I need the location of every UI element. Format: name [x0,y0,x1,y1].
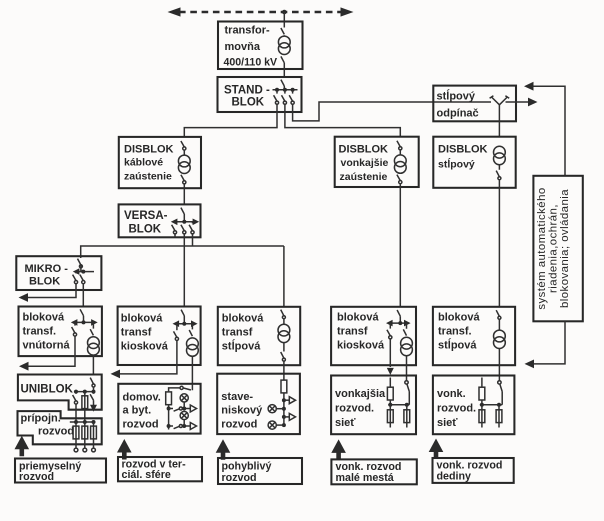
svg-text:rozvod.: rozvod. [335,403,374,415]
transformer in vnutorna [88,337,100,355]
switch in DISBLOK kablove (upper) [181,141,186,150]
fuse pripojn 1 [75,422,77,448]
transformer in DISBLOK kablove [178,155,190,173]
svg-text:zaústenie: zaústenie [340,171,388,183]
wire: to transformer [183,150,185,155]
box: staveniskovy rozvod [217,374,300,434]
node: domov tap 2 [167,424,171,428]
transformer in stlpova-L [278,324,290,342]
wire: STAND-BLOK input stub [283,86,285,90]
node: STAND bus junction 3 [291,88,295,92]
switch on kioskova-R input [397,310,400,323]
box: vonkajsia rozvod. siet [331,376,416,435]
wire: kioskova-R left output down [389,339,391,367]
box: blokova transf stlpova (left) [218,307,300,365]
box: system automatickeho riadenia [533,176,582,321]
node: vonkajsia tap 2 [405,403,409,407]
node: vnutorna bus junction [82,320,86,324]
wire: kioskova-L left output with arrow [119,341,177,374]
svg-text:malé mestá: malé mestá [336,472,394,484]
switch left branch vnutorna [74,322,76,325]
svg-text:DISBLOK: DISBLOK [124,144,174,156]
svg-text:sieť: sieť [335,417,356,429]
wire: odpinac down feeder [498,105,500,137]
node: MIKRO bus junction [81,270,85,274]
svg-text:vnútorná: vnútorná [23,340,71,352]
arrowhead: kioskova-L bus right [191,320,198,327]
wire: domov riser [168,405,170,429]
switch on stlpova-L output (lower) [281,343,284,359]
terminal circle 1 [74,448,78,452]
svg-text:sieť: sieť [437,417,458,429]
box: blokova transf kioskova (left) [118,307,201,366]
wire: VERSA bus [173,221,197,223]
switch on STAND-BLOK input [281,80,284,86]
node: stav tap 3 [282,415,286,419]
arrowhead: MIKRO bus left [73,268,80,275]
arrow: supply to pohyblivy rozvod [216,439,231,460]
outlet 1 in staveniskovy [289,397,295,404]
wire: DISBLOK vonkajsie output to kioskova-R [399,184,401,307]
arrowhead right of dashed bus [341,7,354,16]
switch on domov input (horizontal) [184,384,193,390]
svg-text:stĺpová: stĺpová [222,339,261,353]
box: DISBLOK kablove zaustenie [119,137,201,188]
switch UNIBLOK tap1 [75,392,77,394]
wire: MIKRO bus [78,271,94,273]
switch on vonkajsia right input [405,381,408,384]
node: stav tap 1 [282,398,286,402]
switch UNIBLOK tap3 [93,392,95,394]
arrowhead left of dashed bus [168,7,181,16]
node: kioskova-R bus junction [398,321,402,325]
node: stav tap 2 [282,407,286,411]
svg-text:stĺpový: stĺpový [437,89,476,103]
wire: MIKRO output left with arrow [27,284,76,298]
box: stlpovy odpinac [433,86,516,122]
wire: domov feeder to fuse [169,388,180,392]
switch Q1 in STAND-BLOK [276,90,278,94]
switch on stlpova-L input (upper) [281,310,284,316]
node: VERSA bus junction [182,220,186,224]
node: vonk siet tap 1 [480,403,484,407]
fuse pripojn 2 [84,422,86,448]
wire: vonkajsia bus [388,404,409,406]
wire: transformovna internal feeder [283,22,285,78]
arrowhead: vnutorna bus right [91,319,98,326]
svg-text:vonk.: vonk. [437,388,466,400]
svg-text:odpínač: odpínač [437,108,479,120]
wire: lamp 1 drop [183,402,185,409]
box: blokova transf kioskova (right) [331,307,416,365]
wire: VERSA output right to blokova transf stlpova [193,234,284,307]
svg-text:VERSA-: VERSA- [124,210,168,222]
box STAND-BLOK [218,77,302,112]
transformer in kioskova-L [187,338,199,356]
svg-text:400/110 kV: 400/110 kV [224,57,278,69]
box: rozvod v tercial. sfere [118,457,202,481]
svg-text:transf: transf [222,327,253,339]
svg-text:kiosková: kiosková [337,340,385,352]
svg-text:stĺpová: stĺpová [438,338,477,352]
wire: vnutorna output to UNIBLOK [92,355,94,375]
box: priemyselny rozvod [15,459,106,483]
svg-text:BLOK: BLOK [129,224,162,236]
box: domov a byt. rozvod [118,384,200,434]
wire: kioskova-R output to vonkajsia siet [406,356,408,381]
wire: control line from system box (top) [534,86,566,176]
svg-text:kiosková: kiosková [121,341,169,353]
wire: STAND output 3 to stlpovy odpinac [293,102,491,121]
switch V2 in VERSA [183,222,185,224]
svg-text:rozvod: rozvod [38,426,74,438]
svg-text:BLOK: BLOK [29,276,60,288]
svg-text:vonkajšia: vonkajšia [335,388,386,400]
node: pripojn tap 3 [92,420,96,424]
outlet 1 in domov [190,405,196,412]
switch inside transformovna (upper) [281,28,284,34]
svg-text:káblové: káblové [124,157,163,169]
node: UNIBLOK bus tap 2 [83,390,87,394]
lamp 1 in domov [180,394,188,402]
wire: DISBLOK kablove output to VERSA-BLOK [183,184,185,204]
svg-text:stĺpový: stĺpový [438,157,475,171]
wire: to transformer [283,319,285,324]
wire: kioskova-L bus [175,323,196,325]
transformer in stlpova-R [494,330,506,348]
box: VERSA-BLOK [119,204,201,237]
switch inside transformovna (lower) [281,56,284,62]
switch on kioskova-L input [181,310,184,324]
fuse lower-left in vonkajsia [389,405,391,428]
svg-text:rozvod: rozvod [123,419,159,431]
wire: lamp 1 stub [276,408,284,410]
wire: stlpova-L output to staveniskovy [283,361,285,380]
fuse lower-right in vonk siet [498,405,500,428]
svg-text:transfor-: transfor- [225,25,271,37]
arrowhead: vnutorna bus left [71,319,78,326]
svg-text:riadenia,ochrán,: riadenia,ochrán, [548,204,560,293]
switch V1 in VERSA [174,222,176,224]
arrowhead: kioskova-R output down to vonkajsia siet [387,368,394,375]
svg-text:transf.: transf. [23,326,57,338]
switch M1 in MIKRO [75,272,77,274]
svg-text:bloková: bloková [222,313,264,325]
box U1: transformovna 400/110 kV [218,22,303,70]
node: stav tap 4 [282,423,286,427]
svg-text:rozvod: rozvod [221,419,257,431]
outlet 2 in domov [190,423,196,430]
box: blokova transf. vnutorna [19,307,102,357]
node: junction on dashed bus [282,10,287,15]
switch in DISBLOK stlpovy (lower) [496,165,499,177]
svg-text:pohyblivý: pohyblivý [222,461,272,473]
fuse UNIBLOK tap2 [84,392,86,422]
transformer in DISBLOK vonkajsie [394,155,406,173]
svg-text:vonkajšie: vonkajšie [341,157,389,169]
switch on MIKRO input [78,256,81,271]
wire: vnutorna bus [73,321,96,323]
svg-text:transf.: transf. [438,326,472,338]
node: UNIBLOK bus tap 1 [74,390,78,394]
wire: VERSA output middle to blokova transf kioskova [183,234,185,306]
box: DISBLOK vonkajsie zaustenie [335,137,419,187]
wire: to transformer [498,319,500,330]
svg-text:movňa: movňa [225,41,261,53]
lamp 1 in staveniskovy [268,405,276,413]
node: kioskova-L bus junction [182,322,186,326]
arrowhead: kioskova-R bus right [404,320,411,327]
svg-text:a byt.: a byt. [123,405,152,417]
svg-text:ciál. sfére: ciál. sfére [122,469,171,481]
wire: staveniskovy riser [283,393,285,425]
arrow: supply to vonk rozvod male mesta [331,439,346,460]
wire: pripojn bus [70,421,96,423]
svg-text:rozvod.: rozvod. [437,403,476,415]
wire: outlet 2 stub [284,416,289,418]
box: MIKRO-BLOK [16,256,101,290]
wire: VERSA input stub [183,214,185,222]
wire: to bus [389,401,391,405]
svg-text:dediny: dediny [437,471,471,483]
svg-text:prípojn.: prípojn. [21,413,61,425]
switch kioskova-R right branch [403,323,406,336]
switch kioskova-L right branch [189,324,192,337]
switch kioskova-L left branch [176,324,178,331]
switch on UNIBLOK input [90,378,93,392]
node: domov tap 1 [167,407,171,411]
node: vonk siet tap 2 [497,403,501,407]
node: STAND bus junction 1 [275,88,279,92]
svg-text:rozvod: rozvod [222,472,257,484]
wire: fuse feeder [389,378,391,387]
arrowhead: odpinac output to right [528,98,538,107]
wire: dashed 110kV bus double arrow [179,11,342,13]
fuse upper in vonk siet [479,387,485,400]
wire: kioskova-L output to domov rozvod [191,356,193,384]
svg-text:bloková: bloková [23,312,65,324]
wire: kioskova-R bus [388,322,408,324]
transformer in kioskova-R [401,337,413,355]
lamp 2 in domov [180,411,188,419]
switch V3 in VERSA [192,222,194,224]
box: pohyblivy rozvod [218,458,302,484]
arrowhead: kioskova-L bus left [173,320,180,327]
fuse lower-left in vonk siet [481,405,483,428]
switch Q2 in STAND-BLOK [284,90,286,94]
fuse in domov [166,392,172,405]
box: blokova transf stlpova (right) [433,307,515,365]
svg-text:DISBLOK: DISBLOK [438,144,488,156]
wire: dashed bus to transformovna [283,12,285,22]
wire: to transformer [399,150,401,155]
svg-text:bloková: bloková [121,313,163,325]
wire: DISBLOK stlpovy output to stlpova-R [498,180,500,307]
switch on stlpova-R input [496,310,499,316]
switch on vonk siet right input [498,381,501,384]
box: pripojn. rozvod (stepped outline) [18,411,102,444]
arrow: supply to vonk rozvod dediny [429,439,444,460]
wire: fuse feeder [481,378,483,387]
svg-text:domov.: domov. [123,392,161,404]
svg-text:rozvod: rozvod [19,471,54,483]
svg-text:stave-: stave- [221,391,253,403]
wire: STAND-BLOK bus [273,89,298,91]
transformer T1 400/110 [278,36,290,54]
wire: STAND output 2 to DISBLOK vonkajsie [285,105,400,137]
node: circuit 2 junction [182,424,186,428]
fuse in staveniskovy [281,380,287,393]
arrowhead: VERSA bus right [193,219,200,226]
switch on domov circuit 2 [169,426,180,429]
wire: MIKRO output right to blokova transf vnutorna [82,284,84,307]
svg-text:systém automatického: systém automatického [536,187,548,309]
arrowhead: vnutorna left output [19,362,29,371]
fuse upper in vonkajsia [387,387,393,400]
arrow: supply to rozvod v tercial sfere [117,439,132,460]
box: vonk. rozvod dediny [433,458,514,483]
switch in DISBLOK kablove (lower) [181,175,186,184]
arrow: supply to priemyselny rozvod [14,436,29,457]
wire: to bus [481,401,483,405]
wire: domov circuit 1 [182,408,190,410]
node: pripojn tap 1 [74,420,78,424]
wire: outlet 1 stub [284,399,289,401]
outlet 2 in staveniskovy [289,413,295,420]
arrowhead: VERSA bus left [171,219,178,226]
node: pripojn tap 2 [83,420,87,424]
arrowhead: kioskova-R bus left [386,320,393,327]
box: vonk. rozvod male mesta [331,459,416,484]
node: vonkajsia tap 1 [388,403,392,407]
svg-text:BLOK: BLOK [232,97,265,109]
arrowhead: control line to stlpova box [525,360,535,369]
arrowhead: MIKRO left output [19,293,29,302]
wire: control line from system box (bottom) [534,321,565,364]
switch on domov circuit 1 [169,409,180,412]
wire: domov circuit 2 [182,425,190,427]
wire: tap1 down to pripojn bus [75,404,77,422]
svg-text:UNIBLOK: UNIBLOK [21,384,74,396]
wire: lamp 2 drop [183,420,185,427]
svg-text:niskový: niskový [221,405,263,417]
wire: lamp 2 stub [276,424,284,426]
transformer in DISBLOK stlpovy [494,146,506,164]
svg-text:blokovania; ovládania: blokovania; ovládania [559,189,571,308]
switch Q3 in STAND-BLOK [292,90,294,94]
switch on vnutorna input [80,309,83,322]
wire: VERSA output left to MIKRO-BLOK [81,234,284,256]
arrowhead: control line into odpinac [524,82,534,91]
svg-text:DISBLOK: DISBLOK [339,144,389,156]
svg-text:transf: transf [337,326,368,338]
wire: vnutorna left output with arrow [28,336,76,366]
node: STAND bus junction 2 [283,88,287,92]
fuse lower-right in vonkajsia [406,405,408,428]
wire: stlpova-R output to vonk siet [498,349,500,381]
svg-text:bloková: bloková [438,312,480,324]
switch: pole disconnector V symbol [492,97,508,105]
lamp 2 in staveniskovy [268,421,276,429]
wire: UNIBLOK bus [74,391,95,393]
box: UNIBLOK (stepped outline) [18,375,102,410]
terminal circle 3 [92,448,96,452]
box: DISBLOK stlpovy [433,137,515,188]
wire: vonk siet bus [480,404,502,406]
switch on VERSA input [181,208,184,214]
svg-text:transf: transf [121,327,152,339]
svg-text:zaústenie: zaústenie [124,171,172,183]
wire: STAND output 1 to DISBLOK kablove [184,105,277,137]
svg-text:bloková: bloková [337,312,379,324]
fuse pripojn 3 [93,422,95,448]
switch right branch vnutorna [90,322,93,335]
switch in DISBLOK vonkajsie (lower) [397,175,402,184]
switch in DISBLOK vonkajsie (upper) [397,141,402,150]
svg-text:STAND -: STAND - [224,85,270,97]
box: vonk. rozvod. siet [433,376,515,435]
arrowhead: kioskova-L left output [111,370,121,379]
switch M2 in MIKRO [82,272,84,274]
svg-text:MIKRO -: MIKRO - [25,263,69,275]
arrowhead: tap3 down [90,405,97,412]
node: UNIBLOK bus tap 3 [92,390,96,394]
wire: odpinac output right [506,101,529,103]
node: circuit 1 junction [182,407,186,411]
switch kioskova-R left branch [389,323,391,329]
terminal circle 2 [83,448,87,452]
